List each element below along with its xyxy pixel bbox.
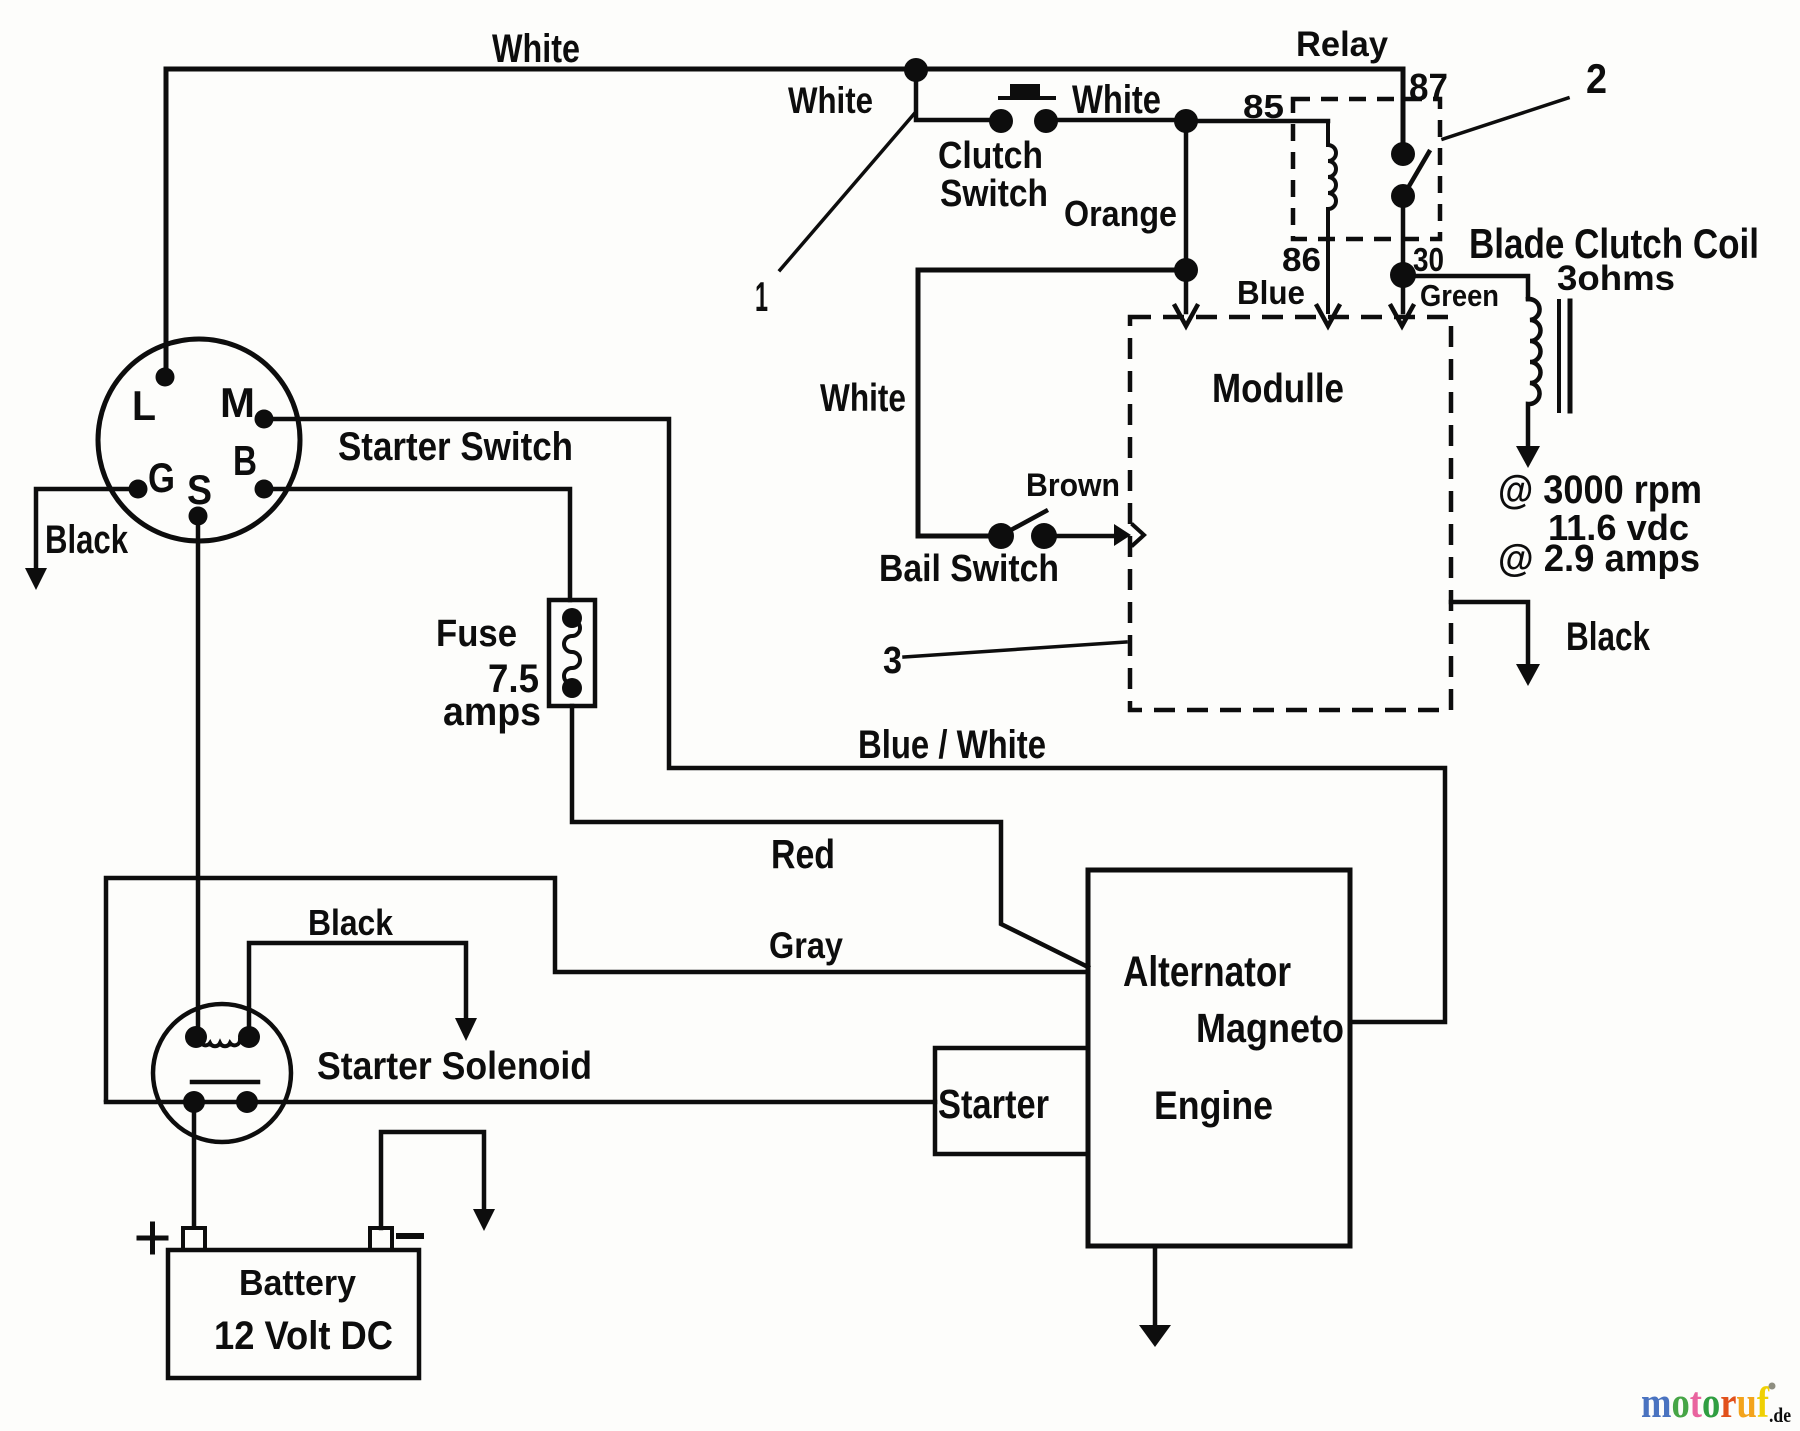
starter switch terminal S bbox=[189, 507, 208, 526]
wire green: terminal 30 to blade clutch coil bbox=[1403, 276, 1528, 299]
svg-text:S: S bbox=[187, 466, 212, 513]
wire 85: node to relay coil bbox=[1186, 119, 1328, 124]
wire blue/white: M terminal to magneto bbox=[264, 419, 1445, 1022]
fuse body bbox=[549, 600, 595, 706]
motoruf.de watermark logo bbox=[1641, 1380, 1791, 1427]
svg-text:White: White bbox=[1072, 78, 1161, 122]
wire brown: bail switch to module arrow bbox=[1057, 534, 1114, 539]
wire orange: node down to module bbox=[1184, 121, 1189, 312]
relay switch blade bbox=[1405, 152, 1429, 193]
starter box bbox=[935, 1048, 1088, 1154]
relay dashed outline bbox=[1130, 99, 1451, 710]
svg-text:motoruf: motoruf bbox=[1641, 1380, 1770, 1427]
svg-text:amps: amps bbox=[443, 690, 541, 734]
chevron at module left edge bbox=[1133, 525, 1144, 545]
wire green: terminal 30 down to module bbox=[1401, 275, 1406, 312]
clutch switch contact dots bbox=[989, 109, 1013, 133]
battery minus terminal bbox=[370, 1228, 392, 1250]
svg-text:Black: Black bbox=[1566, 615, 1651, 659]
arrowhead orange into module bbox=[1175, 306, 1197, 326]
wire white: drop from junction to clutch switch row bbox=[916, 70, 1001, 120]
svg-text:Modulle: Modulle bbox=[1212, 365, 1344, 411]
svg-text:White: White bbox=[492, 27, 580, 71]
node 85 junction bbox=[1174, 109, 1198, 133]
svg-text:30: 30 bbox=[1413, 241, 1444, 278]
svg-text:L: L bbox=[132, 382, 156, 429]
svg-text:Blue: Blue bbox=[1237, 274, 1305, 311]
svg-text:Blue / White: Blue / White bbox=[858, 723, 1046, 767]
ground arrow: black module bbox=[1516, 664, 1540, 686]
starter solenoid body circle bbox=[153, 1004, 291, 1142]
module dashed outline bbox=[1130, 317, 1451, 710]
svg-text:Red: Red bbox=[771, 831, 835, 877]
svg-text:Clutch: Clutch bbox=[938, 135, 1043, 177]
arrowhead green into module bbox=[1391, 306, 1413, 326]
bail switch blade bbox=[1011, 511, 1046, 530]
svg-text:Magneto: Magneto bbox=[1196, 1005, 1344, 1051]
svg-text:White: White bbox=[820, 377, 906, 420]
svg-text:85: 85 bbox=[1243, 88, 1284, 125]
blade clutch coil core line b bbox=[1568, 301, 1573, 411]
svg-text:Brown: Brown bbox=[1026, 467, 1120, 503]
wire red: B terminal to fuse bbox=[264, 489, 570, 600]
battery body bbox=[168, 1250, 419, 1378]
svg-text:Bail Switch: Bail Switch bbox=[879, 548, 1059, 590]
pointer line 1 bbox=[780, 114, 914, 270]
svg-text:G: G bbox=[148, 454, 175, 501]
fuse element squiggle bbox=[564, 620, 580, 684]
ground arrow: starter switch G bbox=[25, 568, 47, 590]
relay switch contact dots bbox=[1391, 142, 1415, 166]
svg-text:Starter: Starter bbox=[938, 1081, 1049, 1127]
wire: S terminal down to solenoid bbox=[196, 516, 201, 1037]
svg-text:3: 3 bbox=[883, 640, 902, 682]
solenoid contact bar bbox=[192, 1080, 258, 1085]
svg-text:Alternator: Alternator bbox=[1123, 948, 1291, 996]
starter switch terminal G bbox=[129, 480, 148, 499]
wire black: solenoid to ground arrow bbox=[249, 943, 466, 1037]
starter switch terminal M bbox=[255, 410, 274, 429]
node 30 junction bbox=[1390, 262, 1416, 288]
wire black: G terminal to ground arrow bbox=[36, 489, 138, 568]
relay coil and wire 86 down to module bbox=[1328, 121, 1336, 312]
svg-text:B: B bbox=[233, 437, 257, 484]
wire: relay switch lower contact to terminal 30 bbox=[1401, 196, 1406, 275]
svg-text:@ 2.9 amps: @ 2.9 amps bbox=[1498, 538, 1700, 580]
ground arrow: black solenoid bbox=[455, 1018, 477, 1041]
wire red: fuse down to alternator bbox=[572, 706, 1088, 967]
fuse terminal dots bbox=[562, 608, 582, 628]
svg-text:Relay: Relay bbox=[1296, 25, 1389, 64]
arrowhead 86 into module bbox=[1317, 306, 1339, 326]
bail switch contact dots bbox=[988, 523, 1014, 549]
svg-text:12 Volt DC: 12 Volt DC bbox=[214, 1314, 393, 1358]
svg-text:Battery: Battery bbox=[239, 1262, 356, 1303]
wire: clutch switch to node 85 bbox=[1046, 118, 1186, 123]
svg-text:Gray: Gray bbox=[769, 925, 843, 966]
svg-text:Green: Green bbox=[1420, 278, 1499, 313]
svg-text:Fuse: Fuse bbox=[436, 613, 517, 655]
ground arrow: battery minus bbox=[473, 1209, 495, 1231]
wire black: module right side out and down bbox=[1451, 602, 1528, 664]
wire: solenoid to battery plus bbox=[192, 1102, 197, 1228]
wire white: starter switch L terminal up and across top to relay 87 bbox=[166, 69, 1403, 378]
minus sign bbox=[399, 1233, 421, 1239]
starter switch body circle bbox=[98, 339, 300, 541]
junction node: top white wire bbox=[904, 58, 928, 82]
svg-text:M: M bbox=[220, 379, 255, 426]
svg-text:White: White bbox=[788, 80, 873, 121]
svg-text:2: 2 bbox=[1586, 55, 1607, 102]
ground arrow: blade clutch coil bbox=[1516, 446, 1540, 468]
alternator magneto engine box bbox=[1088, 870, 1350, 1246]
arrow: bail switch into module bbox=[1114, 524, 1131, 546]
wire gray: solenoid loop to alternator bbox=[106, 878, 1088, 1100]
plus sign bbox=[139, 1224, 166, 1252]
solenoid coil squiggle bbox=[200, 1040, 240, 1046]
svg-text:Orange: Orange bbox=[1064, 193, 1177, 234]
svg-text:1: 1 bbox=[755, 273, 768, 320]
svg-text:Engine: Engine bbox=[1154, 1084, 1273, 1128]
svg-text:Starter Solenoid: Starter Solenoid bbox=[317, 1045, 592, 1088]
battery plus terminal bbox=[183, 1228, 205, 1250]
svg-text:Starter Switch: Starter Switch bbox=[338, 425, 573, 469]
starter switch terminal L bbox=[156, 368, 175, 387]
svg-text:3ohms: 3ohms bbox=[1557, 259, 1675, 298]
blade clutch coil winding bbox=[1528, 299, 1541, 446]
clutch switch push-button symbol bbox=[1000, 96, 1054, 100]
svg-text:87: 87 bbox=[1409, 67, 1448, 109]
blade clutch coil core line a bbox=[1557, 301, 1561, 411]
svg-text:@ 3000 rpm: @ 3000 rpm bbox=[1498, 468, 1702, 512]
starter switch terminal B bbox=[255, 480, 274, 499]
wire: solenoid bottom row to starter box bbox=[106, 1100, 935, 1105]
pointer line 3 bbox=[904, 642, 1126, 657]
wire white: node to bail switch bbox=[918, 270, 1186, 536]
wire: engine to ground arrow bbox=[1153, 1246, 1158, 1325]
pointer line 2 bbox=[1443, 98, 1568, 139]
node orange junction bbox=[1174, 258, 1198, 282]
svg-text:Black: Black bbox=[308, 902, 394, 943]
svg-text:Switch: Switch bbox=[940, 173, 1048, 215]
wire black: battery minus to ground arrow bbox=[381, 1132, 484, 1228]
svg-text:Black: Black bbox=[45, 518, 129, 562]
solenoid terminal dots bbox=[185, 1026, 207, 1048]
svg-text:.de: .de bbox=[1769, 1403, 1791, 1427]
ground arrow: engine bbox=[1139, 1325, 1171, 1347]
svg-text:86: 86 bbox=[1282, 241, 1321, 278]
